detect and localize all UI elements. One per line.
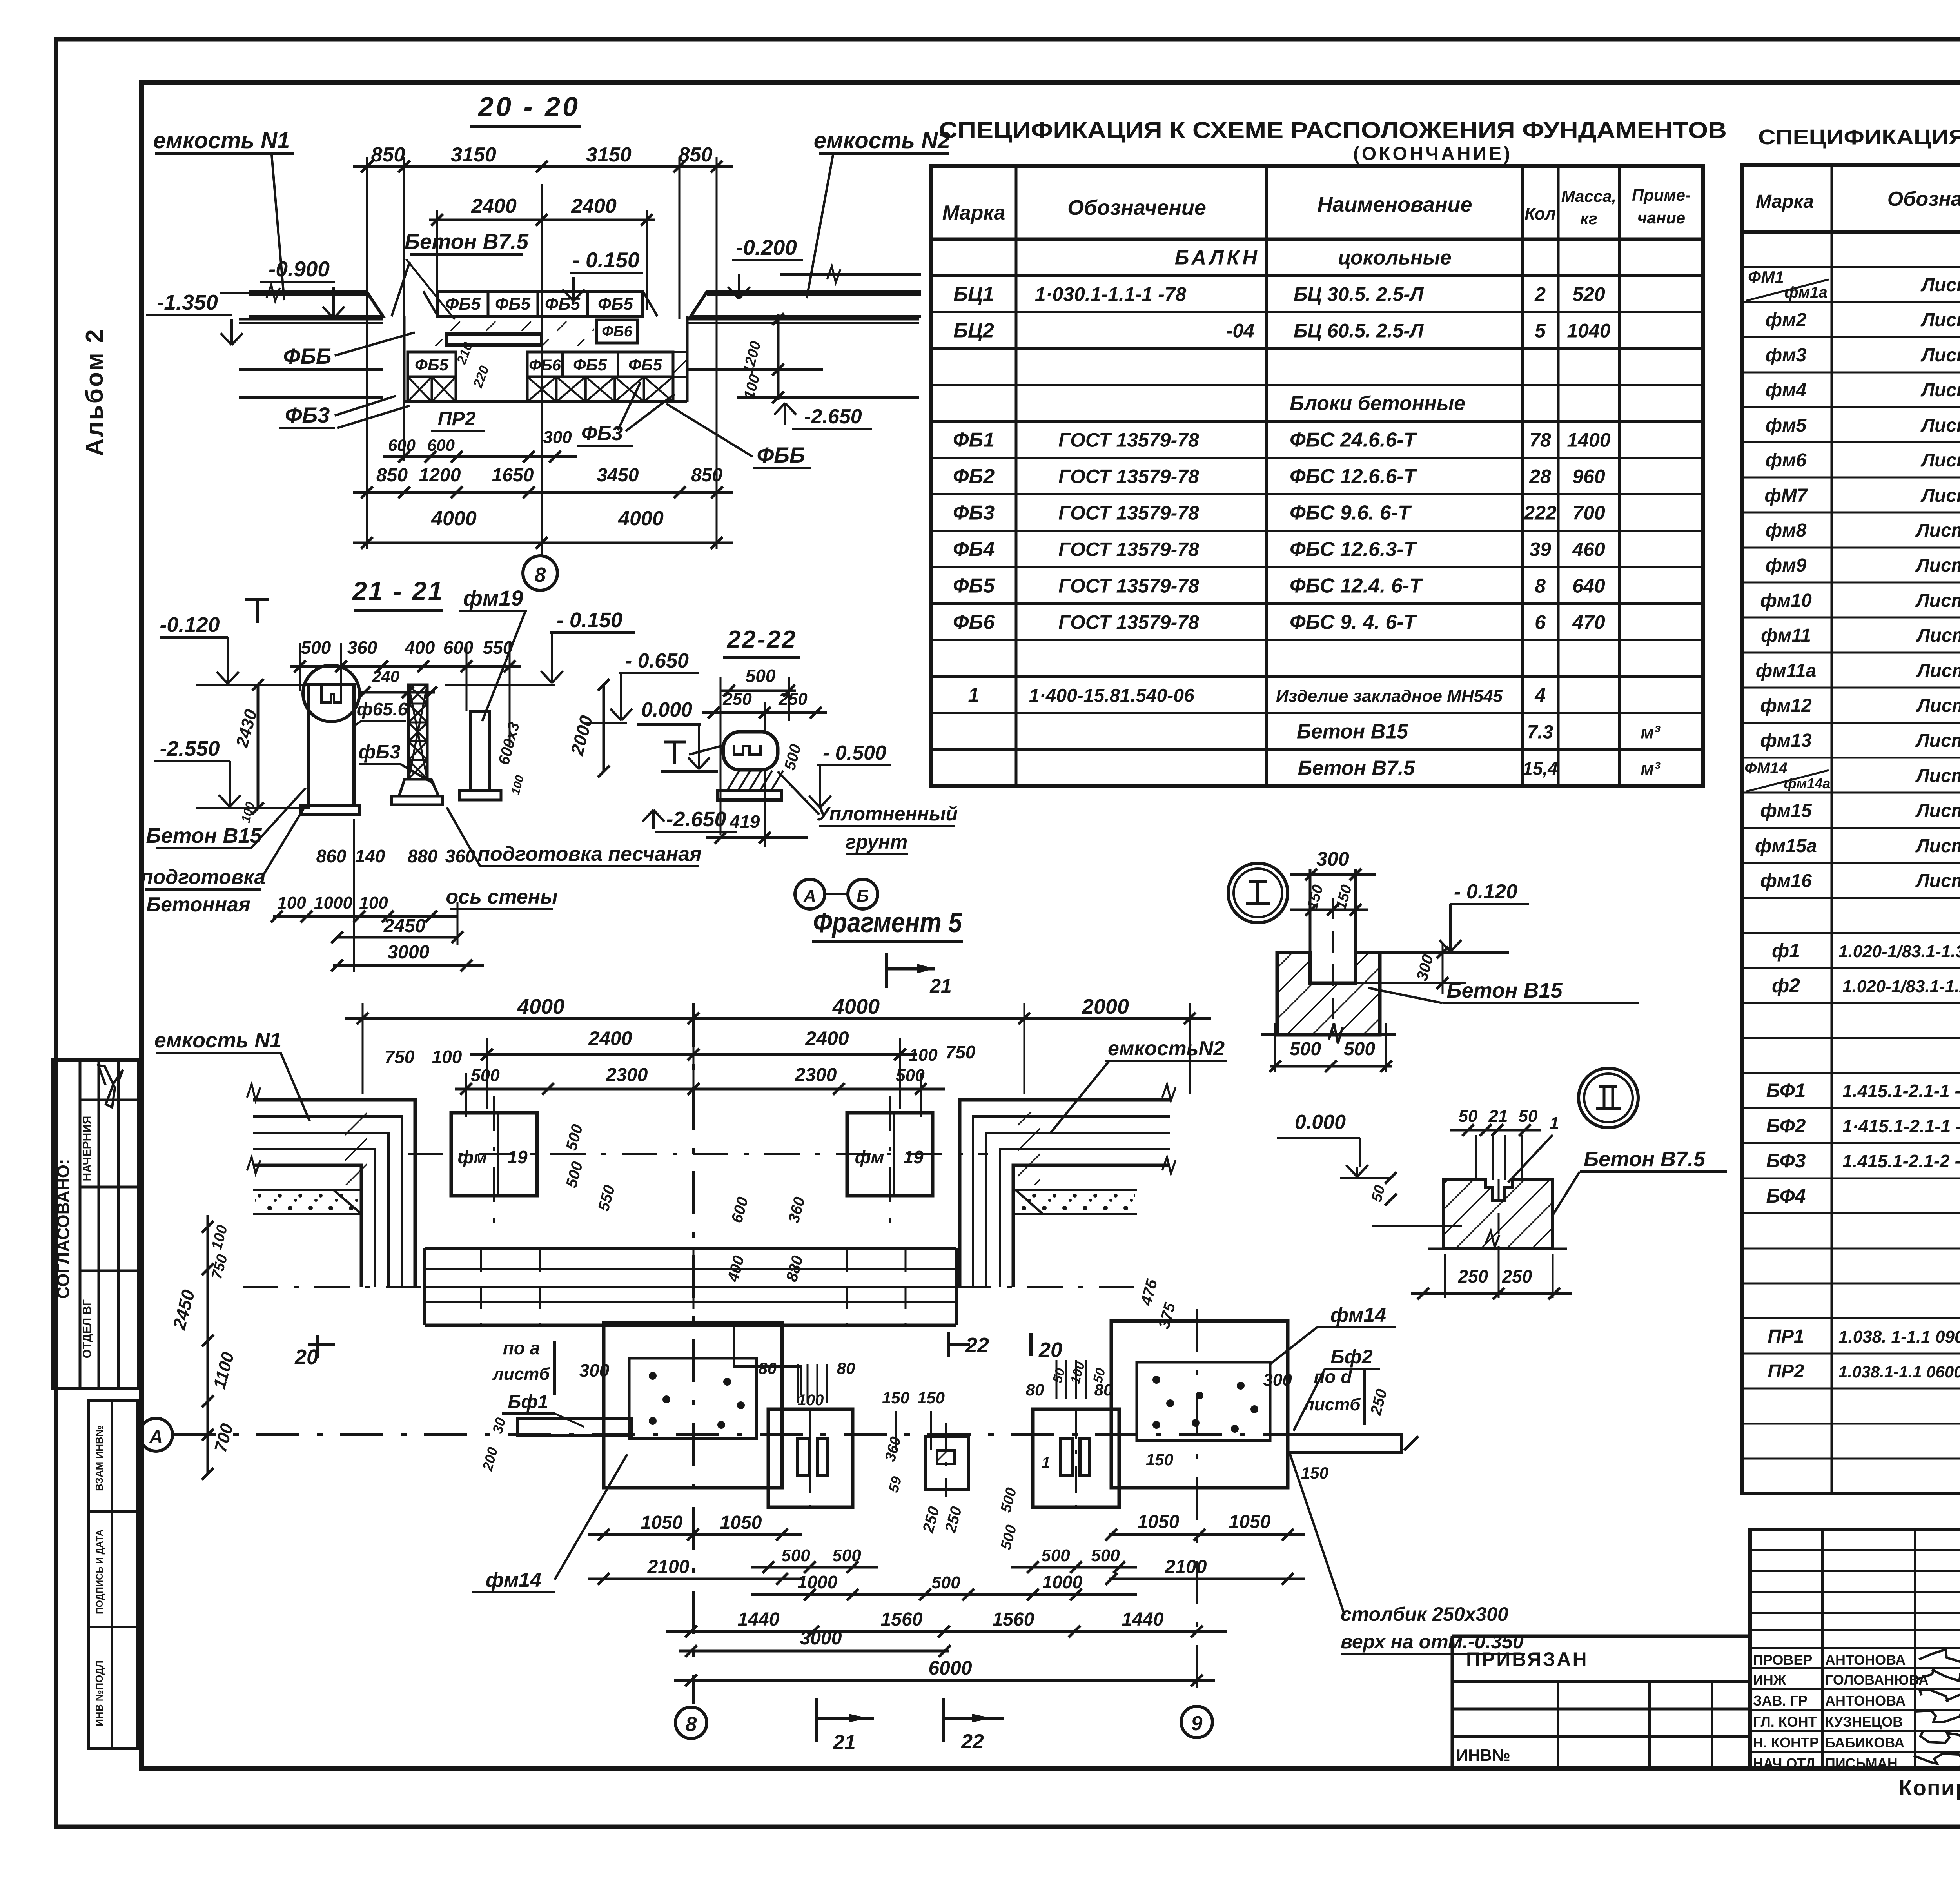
svg-text:по d: по d [1314,1366,1352,1387]
svg-text:2000: 2000 [566,713,597,758]
svg-text:360: 360 [347,637,377,658]
svg-text:1·415.1-2.1-1 -02: 1·415.1-2.1-1 -02 [1842,1116,1960,1136]
svg-text:Бетон В7.5: Бетон В7.5 [1584,1147,1706,1171]
svg-text:- 0.150: - 0.150 [557,608,622,632]
svg-text:БФ3: БФ3 [1766,1150,1806,1172]
svg-text:Лист 9: Лист 9 [1920,450,1960,471]
svg-text:300: 300 [543,428,572,447]
svg-text:5: 5 [1535,320,1546,342]
svg-text:640: 640 [1572,575,1605,597]
svg-text:ФБС 12.6.6-Т: ФБС 12.6.6-Т [1290,465,1418,488]
svg-text:1000: 1000 [1042,1572,1083,1592]
svg-text:300: 300 [1263,1370,1292,1390]
svg-text:ГОСТ 13579-78: ГОСТ 13579-78 [1058,575,1199,597]
svg-text:2: 2 [1534,283,1546,305]
svg-text:500: 500 [563,1123,586,1152]
svg-text:- 0.650: - 0.650 [625,650,689,672]
svg-text:7.3: 7.3 [1527,722,1553,743]
svg-text:м³: м³ [1641,758,1661,779]
svg-text:8: 8 [686,1713,697,1736]
svg-text:Приме-: Приме- [1632,186,1691,204]
svg-text:Лист 12: Лист 12 [1915,766,1960,786]
svg-text:1050: 1050 [641,1512,683,1533]
svg-text:Бф2: Бф2 [1330,1346,1373,1368]
svg-text:фм14: фм14 [486,1569,541,1591]
svg-text:Лист 12: Лист 12 [1915,730,1960,751]
svg-text:28: 28 [1529,466,1551,488]
svg-text:-2.650: -2.650 [804,405,862,428]
svg-text:3150: 3150 [586,143,632,166]
svg-text:Лист 10: Лист 10 [1915,555,1960,576]
svg-text:150: 150 [1301,1464,1328,1482]
svg-text:1: 1 [1042,1454,1050,1472]
svg-text:фБ3: фБ3 [358,741,401,763]
svg-text:1560: 1560 [881,1609,923,1630]
svg-text:фм6: фм6 [1766,450,1807,471]
svg-text:по а: по а [503,1338,540,1358]
svg-text:550: 550 [483,637,513,658]
svg-text:ф65.6: ф65.6 [357,699,408,719]
svg-text:БЦ 30.5. 2.5-Л: БЦ 30.5. 2.5-Л [1294,283,1424,305]
svg-text:50: 50 [1368,1183,1389,1204]
svg-text:ФБ1: ФБ1 [953,429,995,452]
svg-text:1·400-15.81.540-06: 1·400-15.81.540-06 [1029,686,1194,706]
svg-text:1050: 1050 [1229,1512,1271,1532]
svg-text:ФМ1: ФМ1 [1748,268,1784,286]
svg-text:860: 860 [316,846,347,866]
svg-text:ФБ3: ФБ3 [953,502,995,524]
svg-text:0.000: 0.000 [641,699,692,721]
svg-text:фм14а: фм14а [1784,775,1831,791]
svg-text:22: 22 [961,1730,984,1753]
svg-text:ПОДПИСЬ И ДАТА: ПОДПИСЬ И ДАТА [94,1530,105,1614]
svg-text:100: 100 [909,1045,938,1065]
svg-text:1040: 1040 [1567,320,1610,342]
svg-text:4000: 4000 [431,507,477,530]
svg-text:-0.200: -0.200 [736,235,797,259]
svg-text:ФББ: ФББ [757,443,805,467]
svg-text:Бетон В15: Бетон В15 [1297,720,1408,743]
svg-text:1.020-1/83.1-1.2.0.0: 1.020-1/83.1-1.2.0.0 [1842,977,1960,996]
svg-text:Лист 8: Лист 8 [1920,415,1960,436]
svg-text:фм15а: фм15а [1755,836,1817,856]
svg-text:НАЧ.ОТД: НАЧ.ОТД [1753,1755,1815,1771]
svg-text:верх на отм.-0.350: верх на отм.-0.350 [1341,1631,1524,1653]
svg-text:600х3: 600х3 [495,720,523,767]
svg-text:4000: 4000 [517,995,564,1018]
svg-text:100: 100 [359,893,388,913]
svg-text:фм14: фм14 [1330,1304,1386,1326]
svg-text:листб: листб [492,1365,550,1384]
svg-text:100: 100 [509,774,526,796]
svg-text:ФБ5: ФБ5 [953,575,995,597]
svg-text:-0.120: -0.120 [160,613,220,637]
svg-text:Марка: Марка [1756,191,1814,212]
svg-text:1200: 1200 [419,465,461,486]
svg-text:Лист 13: Лист 13 [1915,836,1960,856]
svg-text:Лист 10: Лист 10 [1915,520,1960,541]
svg-text:цокольные: цокольные [1338,247,1451,269]
svg-text:0.000: 0.000 [1295,1111,1346,1134]
svg-text:19: 19 [507,1147,528,1167]
svg-text:21 - 21: 21 - 21 [352,576,444,605]
svg-text:ГОСТ 13579-78: ГОСТ 13579-78 [1058,611,1199,633]
svg-text:БЦ1: БЦ1 [953,283,994,306]
svg-text:8: 8 [535,564,546,586]
svg-text:ФБ5: ФБ5 [545,294,581,314]
svg-text:ФБС 9. 4. 6-Т: ФБС 9. 4. 6-Т [1290,611,1418,634]
svg-text:АНТОНОВА: АНТОНОВА [1825,1693,1906,1709]
svg-text:ФБС 24.6.6-Т: ФБС 24.6.6-Т [1290,429,1418,452]
svg-text:КУЗНЕЦОВ: КУЗНЕЦОВ [1825,1714,1903,1730]
svg-text:фм10: фм10 [1760,590,1812,611]
svg-text:емкость N2: емкость N2 [814,128,951,153]
svg-text:960: 960 [1572,466,1605,488]
svg-text:360: 360 [785,1195,809,1225]
svg-text:2450: 2450 [169,1287,199,1332]
svg-text:Лист 11: Лист 11 [1916,625,1960,646]
svg-text:375: 375 [1156,1301,1179,1331]
svg-text:600: 600 [443,637,474,658]
svg-text:ось стены: ось стены [446,885,557,908]
svg-text:500: 500 [1091,1546,1120,1565]
svg-text:500: 500 [1344,1039,1375,1060]
svg-text:Копировал: Коршунова: Копировал: Коршунова [1899,1775,1960,1800]
svg-text:Кол: Кол [1524,204,1556,223]
svg-text:(ОКОНЧАНИЕ): (ОКОНЧАНИЕ) [1353,143,1512,164]
svg-text:НАЧЕРНИЯ: НАЧЕРНИЯ [81,1116,94,1181]
svg-text:Лист 13: Лист 13 [1915,871,1960,891]
svg-text:80: 80 [837,1359,855,1377]
svg-text:фм11: фм11 [1761,625,1811,646]
svg-text:БФ2: БФ2 [1766,1115,1806,1137]
svg-text:500: 500 [781,1546,810,1565]
svg-text:Б: Б [857,886,869,905]
svg-text:-2.550: -2.550 [160,737,220,760]
svg-text:- 0.500: - 0.500 [823,742,886,764]
svg-text:460: 460 [1572,539,1605,561]
svg-text:-0.900: -0.900 [269,257,330,281]
svg-text:ФБ4: ФБ4 [953,538,995,561]
svg-text:ф1: ф1 [1772,940,1800,962]
svg-text:1050: 1050 [720,1512,762,1533]
svg-text:фм4: фм4 [1766,380,1807,401]
svg-text:100: 100 [432,1047,462,1067]
svg-text:столбик 250х300: столбик 250х300 [1341,1603,1508,1625]
svg-text:ПР2: ПР2 [437,408,475,430]
svg-text:50: 50 [1459,1107,1478,1126]
svg-text:2400: 2400 [471,195,517,218]
svg-text:Лист 8: Лист 8 [1920,310,1960,330]
svg-text:850: 850 [376,465,408,486]
svg-text:ФБС 12.4. 6-Т: ФБС 12.4. 6-Т [1290,575,1423,597]
svg-text:400: 400 [405,637,435,658]
svg-text:1·030.1-1.1-1 -78: 1·030.1-1.1-1 -78 [1035,283,1187,305]
svg-text:- 0.120: - 0.120 [1454,880,1517,903]
svg-text:2300: 2300 [606,1065,648,1085]
svg-text:500: 500 [998,1486,1020,1514]
svg-text:850: 850 [371,143,405,166]
svg-text:ГОСТ 13579-78: ГОСТ 13579-78 [1058,539,1199,561]
svg-text:240: 240 [372,667,399,686]
svg-text:19: 19 [903,1147,924,1167]
svg-text:фм3: фм3 [1766,345,1807,366]
svg-text:ФБ5: ФБ5 [495,294,531,314]
svg-text:БАБИКОВА: БАБИКОВА [1825,1735,1904,1751]
svg-text:подготовка песчаная: подготовка песчаная [477,843,701,866]
svg-text:419: 419 [730,811,760,832]
svg-text:ф2: ф2 [1772,974,1800,996]
svg-text:80: 80 [1026,1381,1044,1399]
svg-text:ПИСЬМАН: ПИСЬМАН [1825,1755,1898,1771]
svg-text:550: 550 [595,1183,619,1213]
svg-text:500: 500 [931,1573,960,1592]
svg-text:Марка: Марка [942,201,1005,224]
svg-text:1.038. 1-1.1 090000: 1.038. 1-1.1 090000 [1838,1327,1960,1346]
svg-text:1: 1 [1550,1114,1559,1133]
svg-text:1: 1 [968,684,980,707]
svg-text:чание: чание [1637,209,1685,227]
svg-text:Бетон В15: Бетон В15 [146,824,262,847]
svg-text:- 0.150: - 0.150 [572,248,640,272]
svg-text:1.415.1-2.1-1 -08: 1.415.1-2.1-1 -08 [1842,1081,1960,1101]
svg-text:Бетонная: Бетонная [146,893,250,916]
svg-text:ПР2: ПР2 [1768,1361,1804,1382]
svg-text:1440: 1440 [1122,1609,1164,1630]
svg-text:3000: 3000 [388,942,430,963]
svg-text:300: 300 [1316,848,1349,870]
svg-text:ГОСТ 13579-78: ГОСТ 13579-78 [1058,502,1199,524]
svg-text:ФБ2: ФБ2 [953,465,995,488]
svg-text:СОГЛАСОВАНО:: СОГЛАСОВАНО: [54,1159,73,1299]
svg-text:21: 21 [1488,1107,1508,1126]
svg-text:150: 150 [882,1388,909,1407]
svg-text:Лист 8: Лист 8 [1920,275,1960,296]
svg-text:600: 600 [388,436,416,454]
svg-text:фм9: фм9 [1766,555,1807,576]
svg-text:емкость N1: емкость N1 [154,1029,281,1052]
svg-text:1400: 1400 [1567,429,1610,451]
svg-text:фм13: фм13 [1760,730,1812,751]
svg-text:ФБ5: ФБ5 [598,294,633,314]
svg-text:250: 250 [942,1505,965,1535]
svg-text:22-22: 22-22 [727,626,797,653]
svg-text:750: 750 [946,1042,976,1062]
svg-text:СПЕЦИФИКАЦИЯ К СХЕМЕ РАСПОЛОЖЕ: СПЕЦИФИКАЦИЯ К СХЕМЕ РАСПОЛОЖЕНИЯ ФУНДАМ… [1758,125,1960,149]
svg-text:Лист 10: Лист 10 [1915,590,1960,611]
svg-text:ФБ6: ФБ6 [529,357,561,374]
svg-text:100: 100 [209,1223,231,1252]
svg-text:ФБ5: ФБ5 [573,356,607,374]
svg-text:4000: 4000 [618,507,664,530]
svg-text:фм19: фм19 [463,586,523,610]
svg-text:фм12: фм12 [1760,695,1812,716]
svg-text:м³: м³ [1641,722,1661,742]
svg-text:1650: 1650 [492,465,534,486]
svg-text:500: 500 [301,637,331,658]
svg-text:Масса,: Масса, [1561,187,1617,205]
svg-text:1050: 1050 [1138,1512,1180,1532]
svg-text:Бетон В7.5: Бетон В7.5 [405,229,529,254]
svg-text:Лист 11: Лист 11 [1916,695,1960,716]
svg-text:Бетон В7.5: Бетон В7.5 [1298,757,1416,780]
svg-text:500: 500 [1041,1546,1070,1565]
svg-text:3000: 3000 [800,1628,842,1649]
svg-text:грунт: грунт [846,831,907,853]
svg-text:фм5: фм5 [1766,415,1807,436]
svg-text:фм1а: фм1а [1784,284,1827,301]
svg-text:80: 80 [759,1359,777,1377]
svg-text:3450: 3450 [597,465,639,486]
svg-text:1000: 1000 [797,1572,838,1592]
svg-text:500: 500 [998,1523,1020,1551]
svg-text:ФБ5: ФБ5 [445,294,481,314]
svg-text:700: 700 [211,1421,237,1454]
svg-text:-04: -04 [1226,320,1254,342]
svg-text:150: 150 [1146,1450,1173,1469]
svg-text:ГЛ. КОНТ: ГЛ. КОНТ [1753,1714,1817,1730]
svg-text:850: 850 [691,465,722,486]
svg-text:2400: 2400 [571,195,617,218]
svg-text:360: 360 [882,1435,904,1463]
svg-text:листб: листб [1303,1395,1361,1414]
svg-text:39: 39 [1529,539,1551,561]
svg-text:ФБ6: ФБ6 [602,323,633,340]
svg-text:1100: 1100 [210,1350,238,1391]
svg-text:4000: 4000 [832,995,880,1018]
svg-text:475: 475 [1137,1277,1161,1308]
svg-text:А: А [149,1427,163,1448]
svg-text:-2.650: -2.650 [666,807,726,831]
svg-text:600: 600 [427,436,455,454]
svg-text:фм11а: фм11а [1756,660,1817,681]
svg-text:8: 8 [1535,575,1546,597]
svg-text:150: 150 [917,1388,945,1407]
svg-text:500: 500 [563,1160,586,1190]
svg-text:ФБ5: ФБ5 [628,356,662,374]
svg-text:Изделие закладное МН545: Изделие закладное МН545 [1276,687,1503,706]
svg-text:ФБ3: ФБ3 [581,422,623,445]
svg-text:500: 500 [1290,1039,1321,1060]
svg-text:ГОСТ 13579-78: ГОСТ 13579-78 [1058,429,1199,451]
svg-text:700: 700 [1572,502,1605,524]
svg-text:Фрагмент 5: Фрагмент 5 [813,907,962,938]
svg-text:20 - 20: 20 - 20 [477,91,580,122]
svg-text:ФБС 9.6. 6-Т: ФБС 9.6. 6-Т [1290,502,1412,524]
svg-text:ФМ14: ФМ14 [1744,760,1788,777]
svg-text:ФББ: ФББ [283,344,331,368]
svg-text:600: 600 [728,1195,752,1225]
svg-text:20: 20 [1038,1338,1062,1362]
svg-text:фм: фм [458,1147,487,1167]
svg-text:100: 100 [1068,1360,1088,1386]
svg-text:9: 9 [1191,1712,1203,1735]
svg-text:ПР1: ПР1 [1768,1326,1804,1347]
svg-text:емкостьN2: емкостьN2 [1108,1037,1225,1060]
svg-text:1000: 1000 [314,893,352,913]
svg-text:300: 300 [579,1360,610,1381]
svg-text:880: 880 [408,846,438,866]
svg-text:1.020-1/83.1-1.3.0.0-01: 1.020-1/83.1-1.3.0.0-01 [1838,942,1960,961]
svg-text:59: 59 [885,1475,905,1494]
svg-text:750: 750 [385,1047,415,1067]
svg-text:Обозначение: Обозначение [1067,196,1206,220]
svg-text:Блоки бетонные: Блоки бетонные [1290,392,1465,415]
svg-text:ГОСТ 13579-78: ГОСТ 13579-78 [1058,466,1199,488]
svg-text:ФБ5: ФБ5 [415,356,449,374]
svg-text:фм16: фм16 [1760,871,1812,891]
svg-text:ПРОВЕР: ПРОВЕР [1753,1652,1812,1668]
svg-text:БФ4: БФ4 [1766,1185,1806,1207]
svg-text:100: 100 [277,893,306,913]
svg-text:520: 520 [1572,283,1605,305]
svg-text:250: 250 [1502,1266,1532,1287]
svg-text:3150: 3150 [451,143,496,166]
svg-text:фм8: фм8 [1766,520,1807,541]
svg-text:Лист 11: Лист 11 [1916,660,1960,681]
svg-text:470: 470 [1572,611,1605,633]
svg-text:300: 300 [1414,953,1437,983]
svg-text:15,4: 15,4 [1523,758,1558,779]
svg-text:-1.350: -1.350 [157,290,218,314]
svg-text:подготовка: подготовка [141,866,266,889]
svg-text:СПЕЦИФИКАЦИЯ К СХЕМЕ РАСПОЛОЖЕ: СПЕЦИФИКАЦИЯ К СХЕМЕ РАСПОЛОЖЕНИЯ ФУНДАМ… [939,118,1727,143]
svg-text:фм: фм [855,1147,884,1167]
svg-text:емкость N1: емкость N1 [153,128,290,153]
svg-text:БФ1: БФ1 [1766,1080,1806,1101]
svg-text:ИНВ №ПОДЛ: ИНВ №ПОДЛ [93,1660,105,1726]
svg-text:БАЛКН: БАЛКН [1175,247,1260,269]
svg-text:1440: 1440 [738,1609,780,1630]
svg-text:50: 50 [1519,1107,1538,1126]
svg-text:500: 500 [781,742,805,772]
svg-text:2400: 2400 [588,1027,632,1049]
svg-text:Лист 13: Лист 13 [1915,800,1960,821]
svg-text:6000: 6000 [928,1657,972,1679]
svg-text:6: 6 [1535,611,1546,633]
svg-text:21: 21 [833,1731,856,1754]
svg-text:2450: 2450 [383,916,426,936]
svg-text:2000: 2000 [1082,995,1129,1018]
svg-text:200: 200 [479,1445,501,1473]
svg-text:ИНВ№: ИНВ№ [1456,1746,1510,1764]
svg-text:Обозначение: Обозначение [1887,188,1960,210]
svg-text:Уплотненный: Уплотненный [817,803,958,825]
svg-text:Альбом 2: Альбом 2 [81,328,108,456]
svg-text:250: 250 [919,1505,943,1535]
svg-text:Лист 9: Лист 9 [1920,485,1960,506]
svg-text:4: 4 [1534,684,1546,706]
svg-text:250: 250 [722,690,752,709]
svg-text:30: 30 [489,1416,509,1435]
svg-text:1.415.1-2.1-2 - 43: 1.415.1-2.1-2 - 43 [1842,1151,1960,1171]
svg-text:ИНЖ: ИНЖ [1753,1672,1786,1688]
svg-text:БЦ2: БЦ2 [953,319,994,342]
svg-text:фм15: фм15 [1760,800,1812,821]
svg-text:250: 250 [1367,1387,1390,1417]
svg-text:500: 500 [471,1066,500,1085]
svg-text:ФБ6: ФБ6 [953,611,995,634]
svg-text:1560: 1560 [993,1609,1034,1630]
svg-text:250: 250 [778,690,808,709]
svg-text:2100: 2100 [647,1557,690,1577]
svg-text:Лист 8: Лист 8 [1920,380,1960,401]
svg-text:фМ7: фМ7 [1764,485,1808,506]
svg-text:500: 500 [746,666,776,686]
svg-text:222: 222 [1523,502,1557,524]
svg-text:ФБС 12.6.3-Т: ФБС 12.6.3-Т [1290,538,1418,561]
svg-text:ФБ3: ФБ3 [285,403,330,427]
